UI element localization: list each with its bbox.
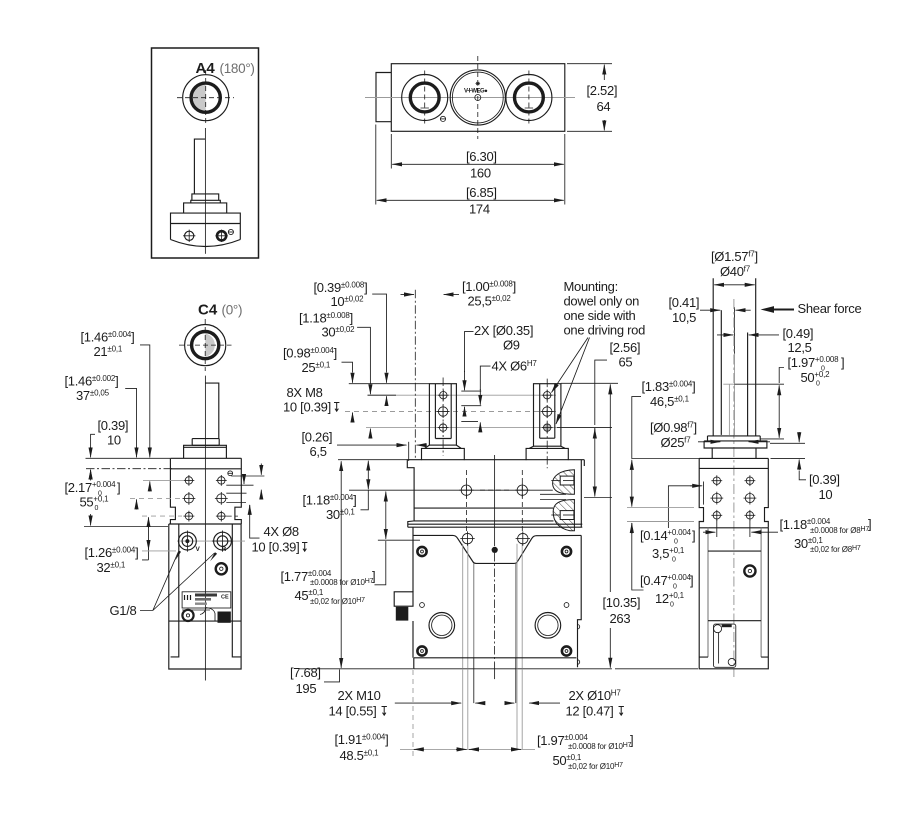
2X [O0.35] O9 label — [474, 323, 533, 353]
dimension 50 rod top ext — [735, 383, 785, 385]
top view main rectangle — [391, 64, 565, 132]
C4 port row gray line — [177, 540, 245, 542]
bottom hole edge black line right — [515, 658, 517, 703]
dimension O40 dim line — [714, 284, 755, 286]
A4 flange outer circle — [183, 75, 229, 121]
front view pocket hole right — [516, 531, 530, 545]
dimension 195 leader — [324, 670, 340, 682]
svg-text:263: 263 — [610, 611, 631, 626]
front view upper hole right — [515, 483, 529, 497]
front view upper body seam2 — [414, 520, 553, 522]
svg-text:[6.85]: [6.85] — [466, 185, 497, 200]
right view rail end steps — [699, 656, 768, 658]
svg-text:one side with: one side with — [564, 308, 636, 323]
dimension 263 bottom ext — [615, 668, 698, 670]
front view upper body hole row line — [349, 489, 553, 491]
right view rod inner short line — [734, 307, 736, 354]
svg-text:12 [0.47]: 12 [0.47] — [566, 704, 614, 719]
dimension 12,5 right arrow — [749, 334, 779, 336]
dimension 10,5 leader arrow — [700, 309, 720, 311]
dimension 32 port bottom ext line — [142, 550, 176, 552]
dimension 21 row1 ext line — [143, 479, 183, 481]
right view rod inner line 2 — [747, 333, 749, 436]
front view hole centerline right — [521, 470, 523, 533]
svg-text:[0.41]: [0.41] — [669, 295, 700, 310]
dimension 6,5 leader arrow — [337, 444, 407, 446]
dimension 21 lower arrow — [149, 481, 151, 491]
front view corner screw top-left — [417, 547, 426, 556]
dimension [2.56] 65 text — [610, 340, 641, 370]
dimension 10 right arrows — [798, 432, 800, 442]
dimension [0.47] 12 text — [640, 573, 693, 609]
dimension 10 leader — [91, 434, 95, 447]
dimension 6,5 right arrow — [417, 444, 428, 446]
dimension 50 rod bottom ext — [761, 438, 785, 440]
dimension 30 O8 ext lines — [716, 519, 718, 537]
dimension 25 leader and arrows — [342, 362, 353, 372]
dimension 55 lower arrow stem — [90, 514, 92, 526]
dimension 21 down arrow — [149, 447, 151, 457]
dimension 10 leader and arrows — [372, 294, 386, 372]
C4 dowel hole row2 right — [215, 492, 228, 505]
C4 sensor screw — [216, 563, 227, 574]
dimension [1.91] 48.5 text — [335, 732, 389, 763]
right view hole row2 left — [710, 492, 723, 505]
svg-text:65: 65 — [619, 355, 633, 370]
C4 rod collar — [192, 439, 219, 446]
dimension 50 rod dim line — [778, 385, 780, 438]
front view corner screw bottom-left — [417, 646, 426, 655]
dimension [0.26] 6,5 text — [302, 430, 333, 460]
view C4 title — [198, 302, 242, 319]
dimension [2.17] 55 text — [65, 480, 121, 512]
front view blob mid lines — [540, 493, 566, 495]
dimension [1.18 +-0.008] 30 text — [299, 311, 355, 340]
svg-text:195: 195 — [296, 681, 317, 696]
front view bottom ext line left — [300, 668, 414, 670]
dimension 50 right arrow — [511, 748, 521, 750]
dimension 3,5 arrow — [690, 485, 702, 487]
O9 up arrow — [464, 407, 466, 417]
front view pocket hole left — [460, 531, 474, 545]
front view body bottom seam2 — [408, 526, 583, 528]
A4 flange plate — [191, 200, 221, 203]
svg-text:174: 174 — [469, 202, 490, 217]
svg-text:V-I-WEG●: V-I-WEG● — [464, 89, 488, 95]
front view center chain in plate — [494, 553, 496, 663]
dimension 10 down arrow — [90, 447, 92, 457]
dimension 3,5 leader — [668, 486, 700, 528]
right view lower rails — [707, 528, 709, 657]
right view lower seam2 — [708, 620, 761, 622]
front view left protrusion — [394, 592, 413, 606]
dimension M10 inner arrow — [475, 702, 484, 704]
dimension O10 inner arrow — [506, 702, 515, 704]
dimension [6.30] 160 extension lines — [390, 134, 392, 169]
G1/8 arrowheads — [175, 551, 217, 562]
C4 type label plate — [182, 592, 231, 608]
front view upper hole left — [459, 483, 473, 497]
dimension 30 O8 arrows — [703, 531, 715, 533]
O9 leader with down arrow — [465, 332, 474, 372]
left block hole middle — [437, 405, 450, 418]
dimension [1.18 O8H7] 30 text — [780, 517, 872, 555]
C4 flange gray half-disc — [205, 334, 215, 357]
A4 flange crosshair horizontal — [177, 97, 234, 99]
C4 right down arrow short — [243, 475, 245, 485]
right view body section line — [699, 527, 768, 529]
front view port square upper — [551, 476, 574, 485]
dimension O25 left arrow — [698, 441, 720, 443]
right mounting block outline — [534, 384, 561, 447]
svg-text:14 [0.55]: 14 [0.55] — [329, 704, 377, 719]
front view section hatch blob upper — [553, 470, 575, 495]
svg-text:8X M8: 8X M8 — [287, 385, 323, 400]
left block right dim line3 — [461, 420, 478, 422]
dimension 46,5 arrows — [631, 460, 633, 507]
dimension 10,5 right arrow — [736, 309, 751, 311]
dimension 65 up arrow — [594, 429, 596, 439]
C4 cable curve — [200, 608, 215, 621]
dimension [1.77] 45 text — [281, 569, 376, 607]
dimension 25,5 arrows — [401, 294, 415, 296]
C4 body upper outline — [170, 458, 241, 524]
dimension O25 right arrow — [749, 441, 770, 443]
dimension 50 rod leader — [779, 368, 784, 384]
left block right dim line2 — [461, 405, 481, 407]
svg-text:[0.39]: [0.39] — [809, 472, 840, 487]
front view plate right edge — [578, 535, 582, 657]
C4 body section line — [169, 523, 242, 525]
C4 bolt hole row1 right — [216, 475, 227, 486]
svg-text:[2.52]: [2.52] — [587, 83, 618, 98]
dimension [1.97] 50 text — [537, 733, 633, 772]
dimension 32 leader — [142, 518, 149, 560]
dimension 12,5 left arrow — [717, 334, 733, 336]
svg-text:160: 160 — [470, 166, 491, 181]
C4 dowel hole row2 left — [183, 492, 196, 505]
C4 base seam — [169, 620, 241, 622]
dimension 3,5 ref line — [703, 482, 705, 505]
right view body outline — [699, 458, 768, 527]
dimension [1.46 +-0.002] 37 text — [65, 374, 119, 404]
4X O8 leader — [250, 505, 260, 538]
dimension [O1.57 f7] O40 text — [711, 249, 758, 279]
top view center small hub circle — [475, 95, 481, 101]
svg-text:[7.68]: [7.68] — [290, 665, 321, 680]
2X O10H7 label — [566, 688, 624, 719]
4X O6H7 label — [492, 359, 538, 374]
right block foot — [526, 446, 568, 460]
svg-text:Mounting:: Mounting: — [564, 279, 618, 294]
4X O8 label — [252, 524, 308, 555]
dimension 10 right leader — [799, 471, 806, 480]
svg-text:2X [Ø0.35]: 2X [Ø0.35] — [474, 323, 533, 338]
front view row3 ext right — [557, 427, 612, 429]
right view body top seam — [699, 467, 768, 469]
right view sensor screw — [744, 565, 755, 576]
dimension [1.00 +-0.008] 25,5 text — [462, 279, 516, 309]
C4 reference chain line — [86, 468, 172, 470]
bottom left dashed gray ext — [412, 670, 414, 758]
left block hole bottom — [438, 422, 449, 433]
svg-text:Ø9: Ø9 — [503, 338, 520, 353]
right view neck — [712, 448, 756, 458]
dimension [2.52] 64 dim line with arrows — [603, 65, 605, 80]
right view hole row2 right — [744, 492, 757, 505]
top view left tab — [376, 73, 391, 122]
O6H7 up arrow — [479, 422, 481, 432]
front view body bottom seam — [408, 523, 583, 525]
dimension [0.39] 10 right text — [809, 472, 840, 502]
right view flange step1 — [708, 436, 761, 441]
top view right port centerline — [528, 71, 530, 125]
front view right edge bumps — [578, 625, 580, 665]
front view hole-row gray lines across blocks — [368, 394, 557, 396]
right block hole top — [542, 390, 553, 401]
front view port square lower — [551, 511, 574, 520]
dimension [6.30] 160 dim line — [392, 163, 564, 165]
dimension 45 arrows — [385, 492, 387, 516]
front view plate top edge with V pocket — [413, 535, 581, 563]
dimension 55 upper arrow — [90, 470, 92, 481]
right view lower seam1 — [708, 550, 761, 552]
A4 centerline vertical — [204, 128, 206, 254]
front view center vertical line — [494, 455, 496, 546]
front view corner screw bottom-right — [562, 646, 571, 655]
svg-text:G1/8: G1/8 — [110, 603, 137, 618]
A4 body bottom arc — [171, 240, 241, 247]
svg-text:dowel only on: dowel only on — [564, 294, 640, 309]
svg-text:R: R — [222, 546, 227, 553]
svg-text:6,5: 6,5 — [310, 444, 327, 459]
front view big hole left — [429, 613, 455, 639]
dimension [1.26] 32 text — [85, 545, 139, 575]
C4 pedestal block — [184, 445, 227, 458]
C4 flange bore thick ring — [192, 332, 219, 359]
front body top ext left — [338, 459, 407, 461]
dimension [6.85] 174 text — [466, 185, 497, 217]
svg-text:2X M10: 2X M10 — [338, 688, 381, 703]
dimension 10 up arrow — [90, 470, 92, 480]
dimension 65 leader vertical — [595, 360, 607, 425]
dimension 6,5 ref line — [408, 442, 410, 461]
front view hidden hole lines left pair — [462, 544, 464, 669]
top view logo stamp — [464, 81, 488, 94]
C4 centerline vertical — [204, 376, 206, 681]
C4 lower rail right — [232, 524, 240, 657]
dimension [6.85] 174 dim line — [377, 199, 564, 201]
svg-text:[10.35]: [10.35] — [603, 595, 641, 610]
right view hole row3 right — [745, 510, 756, 521]
dimension M10 dim line left arrow — [395, 702, 461, 704]
dimension [0.49] 12,5 text — [783, 326, 814, 355]
C4 flange crosshair vertical — [204, 319, 206, 371]
dimension [O0.98 f7] O25 text — [650, 420, 697, 450]
left mounting block outline — [429, 384, 456, 445]
C4 lower rail left — [171, 524, 179, 657]
dimension [0.14] 3,5 text — [640, 528, 695, 564]
C4 rod — [205, 383, 218, 439]
A4 theta mark — [228, 229, 233, 234]
front view center dot — [492, 547, 498, 553]
dimension 45 leader — [375, 541, 386, 585]
dimension 195 dim line — [340, 461, 342, 668]
dimension [0.98 +-0.004] 25 text — [283, 346, 337, 376]
A4 flange gray half-disc — [193, 85, 206, 111]
C4 plate lower edge — [182, 609, 210, 611]
front view small hole left — [420, 603, 425, 608]
front view small hole right — [564, 603, 569, 608]
left block hole top — [438, 390, 449, 401]
dimension 32 down arrow — [148, 541, 150, 550]
top view theta mark — [440, 116, 445, 121]
bottom hole edge black line left — [473, 658, 475, 703]
A4 rod — [194, 139, 205, 194]
bottom hole edge gray lines right pair — [516, 669, 518, 750]
right view lower body — [699, 528, 768, 669]
dimension [1.18 +-0.004] 30 text (lower-left) — [303, 493, 357, 523]
top view left port thick ring — [410, 83, 439, 112]
dimension [0.41] 10,5 text — [669, 295, 700, 325]
front view hole centerline left — [465, 470, 467, 533]
C4 bottom ext line — [84, 526, 168, 528]
Shear force arrow — [761, 306, 795, 313]
svg-text:10 [0.39]: 10 [0.39] — [283, 400, 331, 415]
top view center flange inner circle — [452, 72, 503, 123]
A4 flange bore thick ring — [191, 83, 220, 112]
front view upper body right edge — [581, 460, 584, 528]
C4 right up arrow short — [260, 490, 262, 500]
top view right port outer circle — [506, 75, 552, 121]
C4 air port V — [179, 531, 197, 552]
svg-text:[2.56]: [2.56] — [610, 340, 641, 355]
front view base bottom edge — [414, 668, 612, 670]
svg-text:(0°): (0°) — [222, 303, 243, 318]
dimension [6.85] 174 extension line — [375, 125, 377, 205]
front view base strip — [414, 658, 578, 669]
G1/8 leader lines — [140, 552, 215, 611]
dimension 65 line and down arrow — [594, 428, 596, 497]
front view big hole right — [535, 613, 561, 639]
right view gray inner rod profile — [723, 354, 734, 435]
view A4 title — [196, 60, 255, 77]
right view rod outer right line — [755, 278, 757, 436]
A4 flange crosshair vertical — [205, 70, 207, 125]
svg-text:[0.49]: [0.49] — [783, 326, 814, 341]
top view center flange centerline — [477, 56, 479, 139]
front view pocket corner verticals — [473, 563, 475, 657]
front view hidden hole lines right pair — [516, 544, 518, 669]
C4 right down arrow tall — [260, 464, 262, 475]
front view center dashed line between holes — [480, 489, 509, 491]
dimension 50 left arrow — [469, 748, 479, 750]
dimension [2.52] 64 text — [587, 83, 618, 114]
front view plate left edge — [412, 527, 414, 658]
dimension [0.39 +-0.008] 10 text — [314, 280, 368, 309]
svg-text:10: 10 — [107, 433, 121, 448]
dimension 37 down arrow — [136, 447, 138, 457]
A4 screw right — [215, 230, 227, 242]
dimension 12 up arrow and leader — [631, 523, 633, 534]
C4 cable gland screw — [182, 610, 193, 621]
C4 bolt hole row3 right — [216, 511, 227, 522]
svg-text:CE: CE — [221, 595, 229, 601]
C4 right dim line2 — [226, 484, 253, 486]
C4 connector black block — [218, 612, 231, 623]
front view left black block — [396, 607, 409, 621]
front view row1 ext black — [368, 394, 397, 396]
dimension 65 bottom ext line — [584, 497, 612, 499]
dimension [10.35] 263 text — [603, 595, 641, 626]
C4 right dim line3 — [226, 492, 246, 494]
svg-text:4X Ø8: 4X Ø8 — [264, 524, 299, 539]
dimension 32 row3 ext line — [142, 515, 182, 517]
front view upper body seam1 — [414, 507, 553, 509]
dimension [1.97 +0.008] 50 text — [788, 355, 845, 388]
top view left port keyway notch — [421, 108, 429, 111]
svg-text:V: V — [196, 546, 201, 553]
C4 bolt hole row3 left — [184, 511, 195, 522]
dimension 37 row2 ext line — [130, 497, 182, 499]
dimension [6.30] 160 text — [466, 149, 497, 181]
top view right port keyway notch — [525, 108, 533, 111]
dimension 48.5 left arrow — [414, 748, 424, 750]
front view center line below body — [494, 663, 496, 679]
right view hole row1 left — [711, 475, 722, 486]
A4 screw left — [183, 230, 195, 242]
bottom hole edge gray lines left pair — [462, 669, 464, 750]
4X O8 up arrow — [249, 505, 251, 514]
C4 body flange seam — [170, 468, 241, 470]
left block foot — [422, 445, 465, 460]
right view rod inner line 1 — [720, 310, 722, 435]
dimension 10 right ext lines — [770, 442, 805, 444]
Mounting leader to top hole — [552, 338, 589, 393]
dimension 46,5 leader — [632, 397, 702, 459]
O6H7 leader with down arrow — [480, 366, 490, 390]
C4 right dim line4 — [226, 502, 246, 504]
Mounting note text — [564, 279, 646, 338]
top view center flange outer circle — [450, 70, 505, 125]
right view rod outer left line — [712, 278, 714, 436]
right view hole row1 right — [745, 475, 756, 486]
dimension 48.5 right arrow — [456, 748, 467, 750]
Mounting leader to bottom hole — [556, 338, 590, 425]
front view plate bottom edge — [414, 657, 577, 659]
left block centerline — [442, 378, 444, 456]
2X M10 label — [329, 688, 387, 719]
A4 body seam line — [171, 223, 241, 225]
C4 body lower outline — [169, 524, 241, 669]
dimension 30 lower-left leader — [361, 491, 369, 510]
front view left reference chain vertical — [414, 290, 416, 460]
dimension O10 right arrow — [529, 702, 560, 704]
dimension 30 leader and arrows — [357, 327, 370, 384]
svg-text:[0.39]: [0.39] — [98, 418, 129, 433]
right block hole middle — [541, 405, 554, 418]
left block right dim line1 — [461, 390, 481, 392]
svg-text:Shear force: Shear force — [798, 301, 862, 316]
view A4 border box — [152, 48, 259, 258]
front view block top ext right — [561, 382, 618, 384]
C4 bolt hole row1 left — [184, 475, 195, 486]
dimension [1.46 +-0.004] 21 text — [81, 330, 135, 360]
dimension 45 lower ext line — [378, 539, 420, 541]
A4 pedestal block — [184, 203, 227, 213]
top view left port centerline — [424, 71, 426, 125]
C4 top ext line — [86, 457, 171, 459]
